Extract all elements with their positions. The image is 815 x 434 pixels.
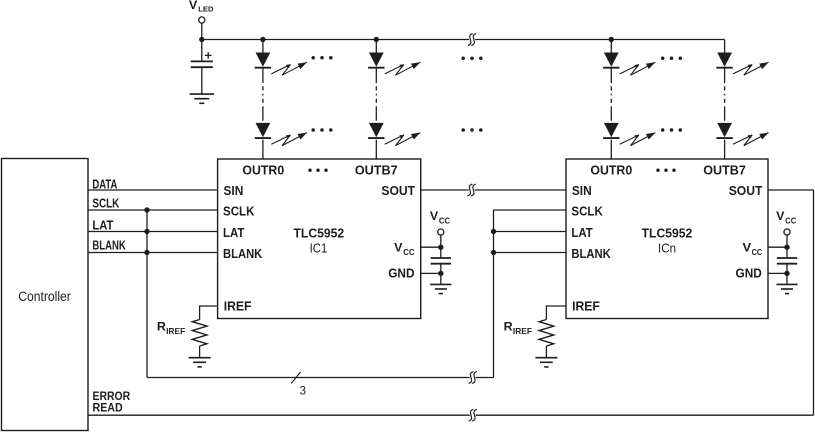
wire capacitor to rail [201, 40, 203, 62]
svg-text:GND: GND [388, 266, 414, 281]
label IC1 [310, 241, 328, 256]
wire V_LED terminal to rail [201, 23, 203, 39]
label IC1 pin SIN [224, 184, 244, 198]
wire right vertical return [813, 190, 815, 415]
wire (dashed string continuation) column 3 [610, 69, 612, 123]
wire capacitor to ground (IC1) [440, 264, 442, 285]
svg-text:SCLK: SCLK [223, 204, 255, 219]
wire bus horizontal (right segment) [476, 377, 494, 379]
LED D4a [716, 53, 732, 68]
wire ERROR READ (left segment) [88, 414, 470, 416]
wire V_CC pin (ICn) [768, 246, 787, 248]
label ICn pin OUTR0 [590, 163, 632, 178]
ground below R_IREF (ICn) [535, 358, 557, 367]
wire LED D2b to OUT pin [375, 140, 377, 159]
wire LED D4b to OUT pin [724, 140, 726, 159]
label ICn pin SOUT [729, 184, 763, 198]
LED D3a emission arrows [620, 62, 656, 75]
wire LAT [88, 231, 218, 233]
wire GND pin (ICn) [768, 272, 787, 274]
svg-text:IREF: IREF [572, 299, 600, 314]
label ERROR [93, 391, 131, 403]
svg-text:LAT: LAT [92, 219, 113, 233]
wire IREF pin (ICn) [546, 306, 566, 320]
LED D3b [603, 123, 619, 138]
label SCLK [92, 196, 119, 210]
wire capacitor to ground (ICn) [786, 264, 788, 285]
label R_IREF (IC1) [157, 322, 185, 336]
wire break on SOUT chain [468, 184, 476, 196]
LED D4b emission arrows [733, 133, 769, 146]
LED D3b emission arrows [620, 133, 656, 146]
label ICn [658, 241, 676, 256]
ellipsis between IC groups (bottom row) [461, 128, 482, 132]
svg-text:BLANK: BLANK [92, 239, 125, 253]
svg-text:CC: CC [752, 247, 763, 257]
node GND junction (ICn) [784, 271, 789, 276]
svg-text:V: V [394, 241, 403, 255]
label TLC5952 (ICn) [642, 227, 693, 241]
node V_CC junction (ICn) [784, 245, 789, 250]
wire bus horizontal (left segment) [147, 377, 470, 379]
power terminal V_CC (ICn) [776, 209, 796, 235]
wire bus vertical (IC1 side) [146, 210, 148, 378]
wire IREF pin (IC1) [200, 306, 218, 320]
svg-text:LAT: LAT [571, 225, 593, 240]
label ICn pin LAT [571, 225, 593, 240]
wire SCLK to ICn [494, 209, 567, 211]
label ICn pin BLANK [571, 246, 611, 261]
wire SCLK [88, 209, 218, 211]
capacitor C (IC1) [431, 258, 451, 264]
label IC1 pin OUTB7 [355, 163, 398, 178]
svg-text:CC: CC [403, 247, 415, 257]
ground below R_IREF (IC1) [189, 358, 211, 367]
LED D4a emission arrows [733, 62, 769, 75]
svg-text:OUTB7: OUTB7 [355, 163, 398, 178]
LED D2b [368, 123, 384, 138]
wire rail to LED D4a [724, 40, 726, 53]
capacitor C1 [191, 61, 213, 67]
node SCLK junction [144, 207, 149, 212]
label IC1 pin LAT [223, 225, 245, 240]
power terminal V_LED [189, 0, 214, 23]
wire SOUT IC1 to SIN ICn (left segment) [421, 189, 469, 191]
LED D1b [255, 123, 271, 138]
ellipsis IC1 OUT pins [308, 169, 327, 172]
ellipsis between ICn LED strings (top row) [661, 56, 682, 60]
wire V_CC terminal down (IC1) [440, 235, 442, 258]
ellipsis between IC groups (top row) [461, 56, 482, 60]
node LAT junction (ICn) [491, 229, 496, 234]
svg-text:BLANK: BLANK [223, 246, 263, 261]
label Controller [18, 289, 71, 304]
label IC1 pin VCC [394, 241, 415, 258]
IC U1 TLC5952 box [218, 159, 421, 319]
node BLANK junction (ICn) [491, 250, 496, 255]
label ICn pin GND [736, 266, 762, 281]
svg-text:TLC5952: TLC5952 [294, 227, 345, 241]
label TLC5952 (IC1) [294, 227, 345, 241]
svg-text:GND: GND [736, 266, 762, 281]
node GND junction (IC1) [438, 271, 443, 276]
label IC1 pin OUTR0 [242, 163, 284, 178]
wire rail to LED D2a [375, 40, 377, 53]
label ICn pin SIN [572, 184, 592, 198]
wire V_LED rail (right segment) [475, 39, 725, 41]
wire V_CC terminal down (ICn) [786, 235, 788, 258]
bus width slash [291, 372, 300, 383]
wire (dashed string continuation) column 1 [262, 69, 264, 123]
svg-text:CC: CC [785, 215, 796, 225]
svg-text:IREF: IREF [513, 326, 532, 336]
svg-text:OUTR0: OUTR0 [590, 163, 632, 178]
svg-text:READ: READ [93, 403, 123, 415]
label IC1 pin BLANK [223, 246, 263, 261]
svg-text:IC1: IC1 [310, 241, 328, 256]
svg-text:CC: CC [439, 215, 450, 225]
wire break on V_LED rail [468, 34, 476, 46]
label R_IREF (ICn) [504, 322, 532, 336]
svg-text:SIN: SIN [224, 184, 244, 198]
svg-text:LAT: LAT [223, 225, 245, 240]
ellipsis between IC1 LED strings (top row) [311, 56, 332, 60]
wire V_CC pin (IC1) [421, 246, 441, 248]
LED D2a emission arrows [385, 62, 421, 75]
ellipsis between IC1 LED strings (bottom row) [311, 128, 332, 132]
power terminal V_CC (IC1) [430, 209, 450, 235]
resistor R_IREF (ICn) [539, 320, 554, 347]
svg-text:ICn: ICn [658, 241, 676, 256]
node LAT junction [144, 229, 149, 234]
svg-text:IREF: IREF [224, 299, 252, 314]
resistor R_IREF (IC1) [192, 320, 207, 347]
node V_CC junction (IC1) [438, 245, 443, 250]
svg-text:SOUT: SOUT [729, 184, 763, 198]
svg-text:V: V [189, 0, 198, 12]
wire (dashed string continuation) column 4 [724, 69, 726, 123]
svg-text:SCLK: SCLK [92, 196, 119, 210]
svg-text:OUTR0: OUTR0 [242, 163, 284, 178]
svg-text:V: V [776, 209, 784, 223]
svg-text:DATA: DATA [92, 177, 117, 191]
label ICn pin VCC [743, 241, 763, 258]
svg-text:IREF: IREF [166, 326, 185, 336]
label IC1 pin SCLK [223, 204, 255, 219]
capacitor C1 plus sign [205, 52, 212, 59]
LED D1a emission arrows [271, 62, 307, 75]
svg-text:BLANK: BLANK [571, 246, 611, 261]
wire ERROR READ (right segment) [476, 414, 814, 416]
wire LED D1b to OUT pin [262, 140, 264, 159]
label 3 (bus width) [300, 386, 306, 398]
node rail junction LED string 1 [260, 37, 265, 42]
ground (ICn) [776, 284, 797, 293]
label ICn pin SCLK [571, 204, 603, 219]
svg-text:LED: LED [198, 4, 214, 13]
wire GND pin (IC1) [421, 272, 441, 274]
wire (dashed string continuation) column 2 [375, 69, 377, 123]
LED D2b emission arrows [385, 133, 421, 146]
LED D3a [603, 53, 619, 68]
label IC1 pin GND [388, 266, 414, 281]
svg-text:OUTB7: OUTB7 [703, 163, 746, 178]
label LAT [92, 219, 113, 233]
LED D4b [716, 123, 732, 138]
wire rail to LED D1a [262, 40, 264, 53]
wire SOUT ICn stub [768, 189, 814, 191]
label IC1 pin SOUT [381, 184, 415, 198]
svg-text:TLC5952: TLC5952 [642, 227, 693, 241]
wire resistor to ground (IC1) [199, 346, 201, 358]
wire capacitor C1 to ground [201, 67, 203, 94]
wire V_LED rail (left segment) [202, 39, 469, 41]
svg-text:SIN: SIN [572, 184, 592, 198]
node V_LED rail junction [199, 37, 204, 42]
label ICn pin IREF [572, 299, 600, 314]
ground below C1 [190, 94, 214, 103]
label BLANK [92, 239, 125, 253]
controller block [2, 159, 89, 431]
ellipsis between ICn LED strings (bottom row) [661, 128, 682, 132]
label ICn pin OUTB7 [703, 163, 746, 178]
capacitor C (ICn) [777, 258, 797, 264]
node rail junction LED string 3 [609, 37, 614, 42]
wire resistor to ground (ICn) [545, 346, 547, 358]
wire LED D3b to OUT pin [610, 140, 612, 159]
wire break on bus [469, 372, 477, 384]
label IC1 pin IREF [224, 299, 252, 314]
wire bus vertical (ICn side) [493, 210, 495, 378]
node rail junction LED string 2 [374, 37, 379, 42]
label READ [93, 403, 123, 415]
wire DATA (controller to SIN) [88, 189, 218, 191]
LED D1b emission arrows [271, 133, 307, 146]
ground (IC1) [430, 284, 451, 293]
svg-text:3: 3 [300, 386, 306, 398]
wire LAT to ICn [494, 231, 567, 233]
wire BLANK [88, 252, 218, 254]
node BLANK junction [144, 250, 149, 255]
wire rail to LED D3a [610, 40, 612, 53]
IC Un TLC5952 box [566, 159, 768, 319]
wire BLANK to ICn [494, 252, 567, 254]
svg-text:Controller: Controller [18, 289, 71, 304]
svg-text:SCLK: SCLK [571, 204, 603, 219]
LED D2a [368, 53, 384, 68]
svg-text:ERROR: ERROR [93, 391, 131, 403]
wire break on ERROR READ [469, 409, 477, 421]
svg-text:V: V [430, 209, 438, 223]
wire SOUT IC1 to SIN ICn (right segment) [475, 189, 566, 191]
label DATA [92, 177, 117, 191]
svg-text:SOUT: SOUT [381, 184, 415, 198]
LED D1a [255, 53, 271, 68]
ellipsis ICn OUT pins [656, 169, 675, 172]
